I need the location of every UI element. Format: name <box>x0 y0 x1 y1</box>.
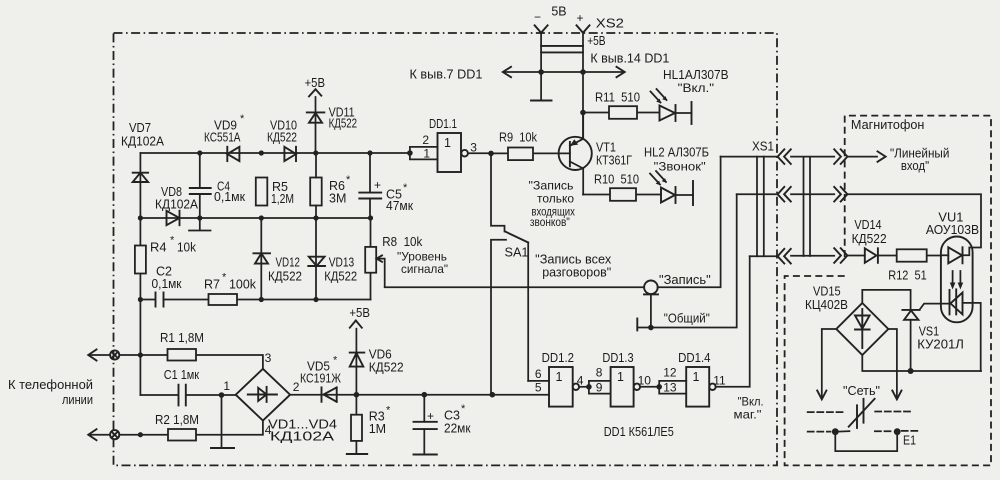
svg-text:КД102А: КД102А <box>121 135 165 149</box>
svg-text:R8 10k: R8 10k <box>382 235 423 249</box>
svg-text:8: 8 <box>596 366 603 380</box>
tape recorder (Магнитофон) dashed border box <box>785 116 991 466</box>
label Запись только входящих звонков <box>529 179 575 230</box>
junction dots rail1 <box>197 150 413 156</box>
ground bar (under bridge) <box>211 447 234 449</box>
ground stub under C4 <box>189 218 211 231</box>
terminal XT to telephone line (upper) <box>88 350 119 361</box>
diode VD10 (inline rail1) <box>267 119 297 162</box>
zener VD5 <box>300 355 341 402</box>
wire line-in arrow (row1 into tape recorder) <box>847 146 949 173</box>
LED HL2 <box>644 146 709 206</box>
svg-text:4: 4 <box>577 374 584 388</box>
diode VD13 (between rail2 and rail3) <box>308 256 357 284</box>
capacitor C5 <box>359 153 413 218</box>
svg-text:VD6: VD6 <box>369 348 392 362</box>
svg-text:3: 3 <box>470 141 477 155</box>
svg-text:*: * <box>403 182 408 194</box>
svg-text:XS2: XS2 <box>596 17 624 31</box>
svg-text:XS1: XS1 <box>752 140 774 154</box>
svg-text:R4: R4 <box>150 241 167 255</box>
svg-text:R1 1,8М: R1 1,8М <box>160 331 204 345</box>
wire bridge left AC to mains arrow <box>817 329 836 399</box>
resistor R3 <box>351 395 391 455</box>
resistor R12 <box>888 249 926 282</box>
junction dot DD1.1 output node <box>488 151 494 157</box>
svg-text:C3: C3 <box>444 409 460 423</box>
wire bridge bottom rail y=371 <box>862 355 981 371</box>
wire lower line row y=434.7 <box>119 421 263 435</box>
capacitor C3 <box>414 395 472 455</box>
svg-text:сигнала": сигнала" <box>401 262 448 276</box>
wire bus verticals between rows <box>757 157 764 257</box>
svg-text:VD15: VD15 <box>813 285 841 299</box>
svg-text:+5В: +5В <box>349 306 370 320</box>
gate DD1.4 <box>659 256 750 406</box>
svg-text:C1 1мк: C1 1мк <box>164 368 200 382</box>
svg-text:HL2 АЛ307Б: HL2 АЛ307Б <box>644 146 709 160</box>
diode VD6 with +5V arrow <box>350 321 404 395</box>
svg-text:VD14: VD14 <box>854 218 881 232</box>
thyristor VS1 <box>902 290 963 371</box>
junction dots rail2 <box>138 215 373 220</box>
svg-text:0,1мк: 0,1мк <box>214 190 246 204</box>
svg-text:маг.": маг." <box>734 408 762 422</box>
svg-text:КД522: КД522 <box>329 117 358 131</box>
svg-text:10k: 10k <box>177 241 197 255</box>
svg-text:11: 11 <box>713 374 726 388</box>
svg-text:К выв.7 DD1: К выв.7 DD1 <box>410 68 483 82</box>
svg-text:*: * <box>346 174 351 186</box>
svg-text:1: 1 <box>693 370 700 384</box>
junction dot VS1 cathode node <box>908 368 914 374</box>
svg-text:КТ361Г: КТ361Г <box>596 154 632 168</box>
wire signal line y=394.5 (bridge out to DD1.2 pin5) <box>290 394 549 396</box>
svg-text:2: 2 <box>422 133 429 147</box>
svg-text:КС551А: КС551А <box>204 131 241 145</box>
wire К выв.7/14 DD1 arrow line y=72 <box>503 67 625 77</box>
svg-text:2: 2 <box>293 380 300 394</box>
svg-text:КД522: КД522 <box>267 131 297 145</box>
svg-text:КЦ402В: КЦ402В <box>805 298 848 312</box>
svg-text:Магнитофон: Магнитофон <box>851 118 925 132</box>
svg-text:5: 5 <box>535 381 542 395</box>
wire C1 branch y=395 <box>140 394 235 396</box>
svg-text:КД522: КД522 <box>324 270 357 284</box>
svg-text:звонков": звонков" <box>530 215 570 229</box>
svg-text:R11 510: R11 510 <box>595 91 640 105</box>
svg-text:12: 12 <box>663 366 677 380</box>
wire XS1 row1 y=156.6 <box>721 156 777 158</box>
svg-text:DD1.1: DD1.1 <box>429 117 457 131</box>
svg-text:"Сеть": "Сеть" <box>843 384 880 398</box>
svg-text:1: 1 <box>617 370 624 384</box>
svg-text:3М: 3М <box>329 192 346 206</box>
diode VD14 <box>852 218 887 263</box>
resistor R5 <box>256 178 294 207</box>
resistor R7 (inline rail3) <box>204 272 257 306</box>
resistor R4 <box>135 235 197 274</box>
resistor R10 <box>583 173 661 201</box>
svg-text:0,1мк: 0,1мк <box>152 277 182 291</box>
optocoupler VU1 capsule <box>926 210 979 322</box>
diode VD7 <box>121 121 165 182</box>
wire bridge top to VS1 anode y=289.9 <box>862 290 910 303</box>
terminal XT to telephone line (lower) <box>88 429 119 440</box>
svg-text:DD1.3: DD1.3 <box>602 351 633 365</box>
svg-text:только: только <box>537 192 574 206</box>
svg-text:1: 1 <box>423 146 430 160</box>
svg-text:VD12: VD12 <box>276 256 301 270</box>
ground bar (under R3) <box>347 453 367 455</box>
connector XS2 pin plus <box>577 25 590 138</box>
svg-text:5В: 5В <box>551 5 566 19</box>
svg-text:VS1: VS1 <box>919 325 939 339</box>
wire row2 to opto LED cathode <box>847 194 981 255</box>
svg-text:6: 6 <box>535 367 542 381</box>
switch SA1 <box>491 153 529 394</box>
label Запись всех разговоров <box>535 253 612 280</box>
svg-text:R2 1,8М: R2 1,8М <box>155 413 199 427</box>
svg-text:*: * <box>222 272 227 284</box>
svg-text:КД102А: КД102А <box>270 430 335 444</box>
capacitor C4 column <box>190 153 246 218</box>
svg-text:*: * <box>333 355 338 367</box>
resistor R9 <box>491 131 570 161</box>
wire rail2 (middle bus y=218) <box>140 217 370 219</box>
svg-text:VD7: VD7 <box>129 121 151 135</box>
svg-text:1,2М: 1,2М <box>271 192 294 206</box>
svg-text:100k: 100k <box>229 278 257 292</box>
LED HL1 <box>651 68 729 124</box>
svg-text:КУ201Л: КУ201Л <box>917 338 964 352</box>
junction dots rail3 <box>138 297 319 302</box>
opto LED (inside VU1 top) <box>941 247 963 263</box>
svg-text:22мк: 22мк <box>444 422 471 436</box>
svg-text:DD1.4: DD1.4 <box>678 351 710 365</box>
resistor R11 <box>583 91 659 119</box>
svg-text:+: + <box>577 11 584 25</box>
svg-text:E1: E1 <box>903 433 916 447</box>
main device dashed-dot border box <box>114 33 778 465</box>
wire XS1 row3 y=256.2 <box>750 255 777 257</box>
wire XS1 row2 y=194.25 <box>737 193 777 195</box>
svg-text:КД522: КД522 <box>852 232 887 246</box>
svg-text:"Вкл.": "Вкл." <box>678 81 714 95</box>
svg-text:9: 9 <box>596 381 603 395</box>
connector XS1 socket contacts (left chevrons) <box>778 149 791 263</box>
resistor R6 <box>310 174 351 206</box>
wire R6/VD13 column <box>315 153 317 300</box>
svg-text:47мк: 47мк <box>386 199 414 213</box>
junction dots on line row and signal line <box>138 352 495 437</box>
svg-text:*: * <box>461 403 466 415</box>
svg-text:"Звонок": "Звонок" <box>654 160 706 174</box>
svg-text:3: 3 <box>265 351 272 365</box>
svg-text:вход": вход" <box>901 159 929 173</box>
svg-text:HL1АЛ307В: HL1АЛ307В <box>663 68 729 82</box>
battery 5V double bars <box>541 46 583 53</box>
diode VD12 (between rail2 and rail3) <box>253 218 302 300</box>
connector XS1 plug contacts (right chevrons) <box>834 149 847 262</box>
svg-text:К телефонной: К телефонной <box>8 378 93 392</box>
svg-text:"Запись": "Запись" <box>659 273 711 287</box>
svg-text:КД522: КД522 <box>268 270 302 284</box>
svg-text:"Запись: "Запись <box>529 179 574 193</box>
resistor R1 <box>160 331 204 361</box>
svg-text:*: * <box>386 405 391 417</box>
svg-text:R12 51: R12 51 <box>888 269 926 283</box>
zener VD9 (inline rail1) <box>204 113 245 161</box>
transistor VT1 (КТ361, pnp) <box>559 113 633 195</box>
svg-text:1: 1 <box>444 136 451 150</box>
svg-text:*: * <box>240 113 245 125</box>
wire bridge right AC to mains arrow <box>888 329 901 399</box>
svg-text:R10 510: R10 510 <box>594 173 639 187</box>
bridge rectifier VD15 <box>805 285 888 356</box>
svg-text:1М: 1М <box>369 422 386 436</box>
svg-text:13: 13 <box>663 381 677 395</box>
svg-text:+5В: +5В <box>305 76 325 90</box>
gate DD1.2 <box>528 351 589 407</box>
resistor R2 <box>155 413 199 441</box>
junction dots gate chain <box>586 384 662 390</box>
wire node1 to ground <box>221 395 223 448</box>
svg-text:+: + <box>427 409 434 423</box>
wire rail3 (lower bus y=299.5, gap at C2) <box>140 299 370 301</box>
svg-text:VT1: VT1 <box>596 141 616 155</box>
switch E1 (mains, two-pole) <box>808 399 919 451</box>
wire VS1 gate from opto <box>920 304 950 310</box>
diode bridge VD1...VD4 <box>223 351 337 444</box>
svg-text:VD13: VD13 <box>329 256 355 270</box>
capacitor C1 <box>164 368 200 405</box>
wire upper line row y=355 <box>119 355 263 369</box>
diode VD11 (above rail1) with +5V arrow <box>307 89 357 153</box>
svg-text:АОУ103В: АОУ103В <box>926 223 979 237</box>
gate DD1.1 <box>410 117 491 172</box>
svg-text:+5В: +5В <box>587 34 605 48</box>
wire rail1 (top bus y=153) <box>140 152 410 154</box>
svg-text:DD1 К561ЛЕ5: DD1 К561ЛЕ5 <box>604 425 674 439</box>
svg-text:1: 1 <box>556 370 563 384</box>
ground bar (battery minus) <box>531 100 552 102</box>
capacitor C2 (inline rail3) <box>152 265 182 307</box>
svg-text:−: − <box>534 10 541 24</box>
ground bar (under C3) <box>414 454 437 456</box>
junction dots XS2 verticals <box>538 69 586 115</box>
diode VD8 (inline rail2) <box>155 185 199 225</box>
wire left column x=140.4 (rail1 to C1 branch) <box>139 153 141 395</box>
wire row3 VD14/R12 feed <box>847 255 941 257</box>
opto light arrows <box>950 271 963 290</box>
svg-text:КД102А: КД102А <box>155 198 199 212</box>
svg-text:разговоров": разговоров" <box>542 266 611 280</box>
svg-text:линии: линии <box>62 393 93 407</box>
svg-text:10: 10 <box>638 374 652 388</box>
node Общий (common) <box>637 194 736 330</box>
gate DD1.3 <box>589 351 659 407</box>
svg-text:"Запись всех: "Запись всех <box>535 253 612 267</box>
svg-text:1: 1 <box>223 379 230 393</box>
node Запись (record jack) <box>385 157 721 328</box>
svg-text:КД522: КД522 <box>369 361 404 375</box>
svg-text:"Вкл.: "Вкл. <box>738 395 764 409</box>
connector XS2 pin minus <box>535 25 548 100</box>
svg-text:+: + <box>374 178 381 192</box>
opto photothyristor (inside VU1 bottom) <box>950 289 981 371</box>
wire cable pair between XS1 halves <box>791 157 834 256</box>
potentiometer R8 <box>365 218 448 300</box>
svg-text:R9 10k: R9 10k <box>499 131 538 145</box>
svg-text:"Общий": "Общий" <box>664 312 710 326</box>
svg-text:R7: R7 <box>204 278 220 292</box>
svg-text:SA1: SA1 <box>505 246 529 260</box>
svg-text:DD1.2: DD1.2 <box>542 351 574 365</box>
svg-text:*: * <box>170 235 175 247</box>
svg-text:К выв.14 DD1: К выв.14 DD1 <box>590 51 669 65</box>
svg-text:КС191Ж: КС191Ж <box>300 372 341 386</box>
